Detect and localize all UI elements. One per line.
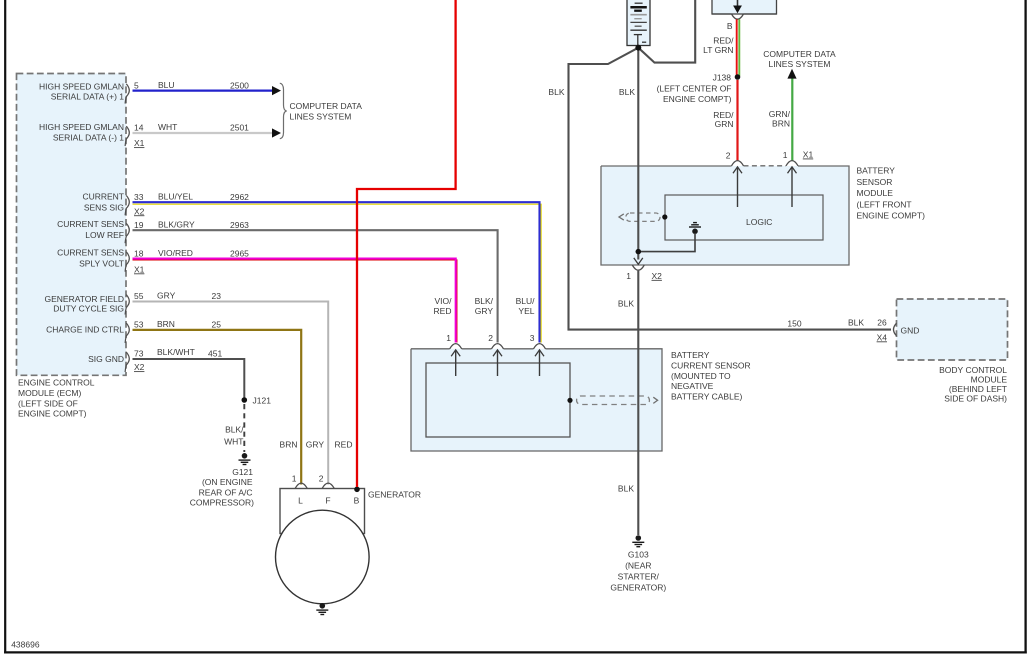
svg-text:GRY: GRY <box>306 439 325 449</box>
svg-text:GRY: GRY <box>157 291 176 301</box>
svg-text:X2: X2 <box>134 206 145 216</box>
svg-text:14: 14 <box>134 123 144 133</box>
svg-text:BODY CONTROL: BODY CONTROL <box>939 365 1007 375</box>
svg-text:G121: G121 <box>232 467 253 477</box>
svg-text:19: 19 <box>134 220 144 230</box>
svg-text:BLK: BLK <box>619 87 635 97</box>
svg-text:438696: 438696 <box>11 640 40 650</box>
svg-text:LT GRN: LT GRN <box>703 45 733 55</box>
svg-text:(BEHIND LEFT: (BEHIND LEFT <box>949 384 1007 394</box>
svg-text:SIDE OF DASH): SIDE OF DASH) <box>944 394 1007 404</box>
svg-text:RED/: RED/ <box>713 35 734 45</box>
svg-text:CURRENT SENSOR: CURRENT SENSOR <box>671 360 751 370</box>
svg-text:MODULE (ECM): MODULE (ECM) <box>18 388 81 398</box>
svg-text:X1: X1 <box>134 138 145 148</box>
svg-text:LINES SYSTEM: LINES SYSTEM <box>769 59 831 69</box>
svg-text:BLK/: BLK/ <box>475 296 494 306</box>
svg-text:BLK/GRY: BLK/GRY <box>158 219 195 229</box>
svg-text:BLK: BLK <box>618 298 634 308</box>
svg-text:(NEAR: (NEAR <box>625 560 651 570</box>
svg-text:55: 55 <box>134 291 144 301</box>
svg-text:LOGIC: LOGIC <box>746 217 772 227</box>
svg-text:SENSOR: SENSOR <box>857 177 893 187</box>
svg-text:DUTY CYCLE SIG: DUTY CYCLE SIG <box>53 303 124 313</box>
svg-text:(ON ENGINE: (ON ENGINE <box>202 477 253 487</box>
svg-text:LOW REF: LOW REF <box>85 230 124 240</box>
svg-text:GENERATOR: GENERATOR <box>368 490 421 500</box>
svg-text:MODULE: MODULE <box>857 188 894 198</box>
svg-text:COMPUTER DATA: COMPUTER DATA <box>763 49 836 59</box>
svg-text:(LEFT CENTER OF: (LEFT CENTER OF <box>657 83 732 93</box>
svg-text:L: L <box>298 496 303 506</box>
svg-text:B: B <box>354 496 360 506</box>
svg-text:BRN: BRN <box>157 319 175 329</box>
svg-text:GND: GND <box>901 326 920 336</box>
svg-text:MODULE: MODULE <box>971 375 1008 385</box>
svg-text:2963: 2963 <box>230 220 249 230</box>
svg-text:CURRENT: CURRENT <box>82 191 124 201</box>
svg-text:GRN: GRN <box>715 119 734 129</box>
svg-text:1: 1 <box>446 333 451 343</box>
svg-text:53: 53 <box>134 320 144 330</box>
svg-text:BATTERY: BATTERY <box>857 166 896 176</box>
svg-text:(LEFT SIDE OF: (LEFT SIDE OF <box>18 398 78 408</box>
svg-text:23: 23 <box>212 291 222 301</box>
svg-text:BATTERY CABLE): BATTERY CABLE) <box>671 392 742 402</box>
svg-text:2962: 2962 <box>230 192 249 202</box>
svg-text:J121: J121 <box>253 396 272 406</box>
svg-text:CHARGE IND CTRL: CHARGE IND CTRL <box>46 325 124 335</box>
svg-text:VIO/: VIO/ <box>434 296 452 306</box>
svg-text:B: B <box>727 21 733 31</box>
svg-text:REAR OF A/C: REAR OF A/C <box>199 487 253 497</box>
svg-text:COMPUTER DATA: COMPUTER DATA <box>290 101 363 111</box>
svg-text:WHT: WHT <box>158 122 177 132</box>
svg-text:1: 1 <box>292 474 297 484</box>
svg-text:CURRENT SENS: CURRENT SENS <box>57 219 124 229</box>
svg-text:2: 2 <box>726 151 731 161</box>
svg-text:BLU/: BLU/ <box>516 296 536 306</box>
svg-text:HIGH SPEED GMLAN: HIGH SPEED GMLAN <box>39 122 124 132</box>
svg-text:F: F <box>325 496 330 506</box>
svg-text:YEL: YEL <box>518 306 534 316</box>
svg-text:LINES SYSTEM: LINES SYSTEM <box>290 111 352 121</box>
svg-text:3: 3 <box>530 333 535 343</box>
svg-text:(LEFT FRONT: (LEFT FRONT <box>857 199 912 209</box>
svg-text:X2: X2 <box>652 271 663 281</box>
svg-text:VIO/RED: VIO/RED <box>158 248 193 258</box>
svg-text:RED: RED <box>434 306 452 316</box>
svg-text:1: 1 <box>783 150 788 160</box>
svg-text:451: 451 <box>208 349 222 359</box>
svg-text:2500: 2500 <box>230 80 249 90</box>
svg-text:BLU: BLU <box>158 80 175 90</box>
svg-text:SENS SIG: SENS SIG <box>84 203 124 213</box>
svg-text:ENGINE COMPT): ENGINE COMPT) <box>663 94 732 104</box>
svg-text:SERIAL DATA (-) 1: SERIAL DATA (-) 1 <box>53 133 124 143</box>
svg-text:BLK: BLK <box>848 317 864 327</box>
svg-text:2501: 2501 <box>230 123 249 133</box>
svg-text:5: 5 <box>134 80 139 90</box>
svg-text:GENERATOR): GENERATOR) <box>610 582 666 592</box>
svg-text:WHT: WHT <box>224 436 243 446</box>
svg-text:G103: G103 <box>628 549 649 559</box>
svg-text:2965: 2965 <box>230 248 249 258</box>
svg-text:GRY: GRY <box>475 306 494 316</box>
svg-text:SERIAL DATA (+) 1: SERIAL DATA (+) 1 <box>51 92 125 102</box>
svg-text:33: 33 <box>134 192 144 202</box>
svg-text:NEGATIVE: NEGATIVE <box>671 381 714 391</box>
svg-text:ENGINE COMPT): ENGINE COMPT) <box>18 409 87 419</box>
svg-text:HIGH SPEED GMLAN: HIGH SPEED GMLAN <box>39 81 124 91</box>
svg-text:RED: RED <box>335 439 353 449</box>
svg-text:X4: X4 <box>877 332 888 342</box>
svg-text:STARTER/: STARTER/ <box>618 571 660 581</box>
svg-text:18: 18 <box>134 248 144 258</box>
svg-text:BLK/: BLK/ <box>225 424 244 434</box>
svg-text:150: 150 <box>787 318 801 328</box>
svg-text:ENGINE CONTROL: ENGINE CONTROL <box>18 378 95 388</box>
svg-text:1: 1 <box>626 271 631 281</box>
svg-text:BRN: BRN <box>280 439 298 449</box>
svg-text:BLK: BLK <box>618 484 634 494</box>
svg-text:X2: X2 <box>134 362 145 372</box>
svg-text:SIG GND: SIG GND <box>88 354 124 364</box>
svg-text:26: 26 <box>877 317 887 327</box>
svg-text:COMPRESSOR): COMPRESSOR) <box>190 498 254 508</box>
svg-text:BATTERY: BATTERY <box>671 350 710 360</box>
svg-text:BRN: BRN <box>772 118 790 128</box>
svg-text:BLU/YEL: BLU/YEL <box>158 192 193 202</box>
svg-text:2: 2 <box>319 474 324 484</box>
svg-text:CURRENT SENS: CURRENT SENS <box>57 247 124 257</box>
svg-text:BLK: BLK <box>548 87 564 97</box>
svg-text:BLK/WHT: BLK/WHT <box>157 347 195 357</box>
svg-text:2: 2 <box>488 333 493 343</box>
svg-text:J138: J138 <box>713 72 732 82</box>
svg-text:73: 73 <box>134 349 144 359</box>
svg-text:X1: X1 <box>803 150 814 160</box>
svg-text:SPLY VOLT: SPLY VOLT <box>79 258 124 268</box>
svg-text:ENGINE COMPT): ENGINE COMPT) <box>857 211 926 221</box>
svg-text:X1: X1 <box>134 264 145 274</box>
svg-text:(MOUNTED TO: (MOUNTED TO <box>671 371 731 381</box>
svg-text:25: 25 <box>212 320 222 330</box>
